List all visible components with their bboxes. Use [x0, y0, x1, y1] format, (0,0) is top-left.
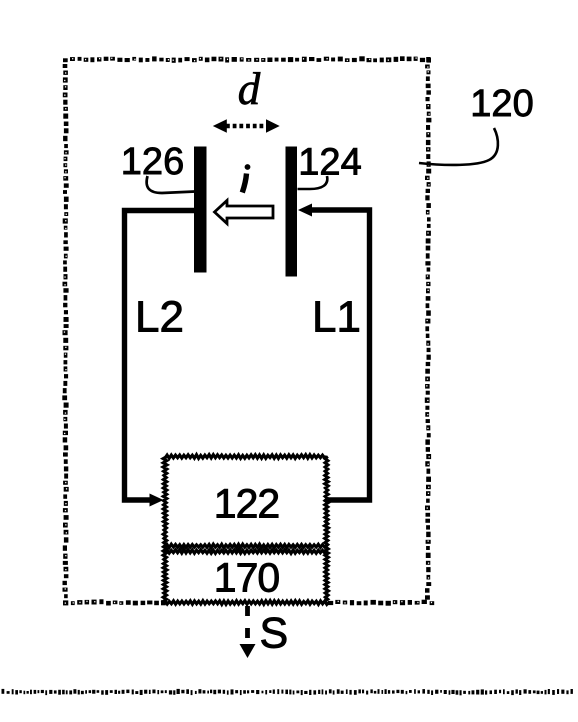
- arrowhead into box 122 (left side, pointing right): [150, 494, 164, 507]
- dashed enclosure 120: top border: [63, 56, 431, 63]
- plate 124 (right electrode bar): [286, 147, 298, 277]
- dashed enclosure 120: bottom border right segment: [328, 600, 434, 606]
- dashed enclosure 120: left border: [62, 64, 68, 598]
- leader line for 124: [298, 176, 328, 189]
- current arrow (hollow, pointing left): [215, 201, 274, 224]
- leader line for 120: [419, 128, 498, 165]
- svg-text:122: 122: [214, 481, 279, 527]
- label i (current): dot: [245, 164, 251, 170]
- svg-text:L1: L1: [312, 293, 361, 342]
- svg-text:d: d: [238, 64, 261, 114]
- box 122: top edge: [165, 455, 327, 459]
- signal S dashed arrow stem: [245, 606, 250, 644]
- wire L2: top horizontal from plate 126 to left leg: [125, 211, 201, 501]
- arrowhead into plate 124 (pointing left): [298, 204, 312, 217]
- box 122: bottom edge: [165, 544, 327, 548]
- box 170: top edge: [165, 550, 327, 554]
- boxes 122/170: shared left edge: [163, 457, 167, 603]
- dimension arrow d : right head: [266, 119, 280, 132]
- bottom page edge dotted line: [2, 689, 573, 695]
- dashed enclosure 120: right border: [425, 57, 432, 600]
- svg-text:126: 126: [121, 141, 184, 183]
- boxes 122/170: shared right edge: [325, 457, 329, 603]
- plate 126 (left electrode bar): [194, 147, 207, 273]
- svg-text:170: 170: [214, 555, 280, 601]
- svg-text:124: 124: [298, 142, 361, 184]
- label i (current): stem: [242, 174, 246, 193]
- dimension arrow d : left head: [213, 119, 227, 132]
- box 170: bottom edge: [163, 601, 329, 605]
- svg-text:S: S: [260, 610, 289, 658]
- svg-text:120: 120: [470, 83, 533, 125]
- signal S arrowhead: [240, 644, 256, 658]
- dimension arrow d (double-headed dashed) : shaft: [226, 124, 267, 128]
- wire L1: from plate 124 down right leg into box 122: [311, 210, 370, 500]
- dashed enclosure 120: bottom border left segment: [63, 599, 166, 605]
- leader line for 126: [147, 176, 195, 193]
- svg-text:L2: L2: [135, 293, 184, 342]
